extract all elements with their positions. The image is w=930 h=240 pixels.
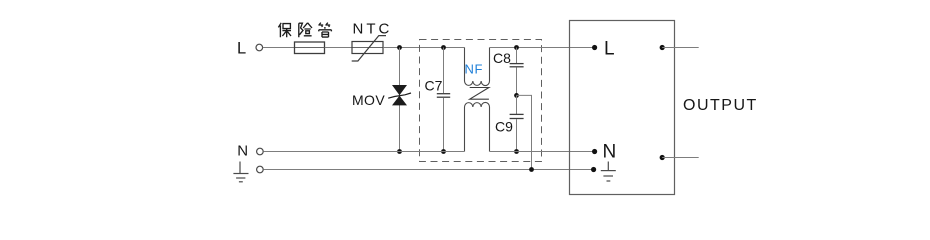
svg-text:L: L bbox=[237, 40, 246, 58]
node output + dot bbox=[660, 45, 665, 50]
label C8 bbox=[493, 50, 511, 66]
thermistor NTC bbox=[352, 36, 386, 61]
wire choke to output box (N rail) bbox=[490, 151, 595, 153]
label C7 bbox=[425, 77, 443, 93]
svg-text:N: N bbox=[237, 142, 248, 159]
svg-text:N: N bbox=[603, 142, 617, 163]
wire L terminal to fuse bbox=[263, 47, 295, 49]
node junction C8/C9 midpoint bbox=[514, 93, 519, 98]
wire MOV branch vertical bbox=[399, 48, 401, 152]
svg-text:C8: C8 bbox=[493, 50, 511, 66]
wire output bottom bbox=[662, 157, 699, 159]
label NF bbox=[465, 62, 484, 77]
node output - dot bbox=[660, 155, 665, 160]
svg-text:C9: C9 bbox=[495, 119, 513, 135]
label C9 bbox=[495, 119, 513, 135]
wire earth terminal to output box bbox=[263, 169, 593, 171]
ground (output earth symbol) bbox=[601, 162, 616, 182]
capacitor C8 bbox=[510, 48, 524, 96]
node junction MOV top bbox=[397, 45, 402, 50]
node junction C7 top bbox=[441, 45, 446, 50]
node N input label bbox=[237, 142, 248, 159]
node junction MOV bottom bbox=[397, 149, 402, 154]
varistor MOV bbox=[388, 85, 411, 105]
ground (input earth symbol) bbox=[233, 162, 248, 182]
svg-text:OUTPUT: OUTPUT bbox=[683, 97, 758, 114]
common-mode choke NF top winding bbox=[465, 48, 490, 86]
node junction C9 bottom bbox=[514, 149, 519, 154]
node L output terminal bbox=[592, 45, 597, 50]
label N output bbox=[603, 142, 617, 163]
node junction earth / Y-cap bbox=[529, 167, 534, 172]
fuse F1 (保险管) bbox=[295, 42, 325, 54]
label OUTPUT bbox=[683, 97, 758, 114]
svg-text:NF: NF bbox=[465, 62, 484, 77]
svg-text:NTC: NTC bbox=[353, 21, 393, 38]
wire fuse to NTC bbox=[325, 47, 353, 49]
label MOV bbox=[352, 92, 385, 108]
terminal earth bbox=[257, 166, 264, 173]
wire Y-cap midpoint to earth bbox=[517, 95, 532, 169]
wire choke to output box (L rail) bbox=[490, 47, 595, 49]
wire output top bbox=[662, 47, 699, 49]
svg-text:L: L bbox=[604, 39, 615, 60]
terminal N bbox=[257, 148, 264, 155]
label NTC bbox=[353, 21, 393, 38]
common-mode choke NF core bbox=[470, 88, 489, 100]
label 保险管 (fuse) drawn glyphs bbox=[278, 23, 331, 38]
node junction C7 bottom bbox=[441, 149, 446, 154]
svg-text:C7: C7 bbox=[425, 77, 443, 93]
node L input label bbox=[237, 40, 246, 58]
capacitor C9 bbox=[510, 95, 524, 151]
node junction C8 top bbox=[514, 45, 519, 50]
wire N terminal to choke (N rail) bbox=[263, 151, 464, 153]
capacitor C7 bbox=[437, 48, 450, 152]
node N output terminal bbox=[592, 149, 597, 154]
node earth output terminal bbox=[591, 167, 596, 172]
label L output bbox=[604, 39, 615, 60]
svg-text:MOV: MOV bbox=[352, 92, 385, 108]
EMI filter dashed box bbox=[420, 40, 542, 162]
output module box bbox=[570, 21, 675, 195]
terminal L bbox=[256, 44, 263, 51]
common-mode choke NF bottom winding bbox=[465, 102, 490, 151]
wire NTC to choke (L rail) bbox=[383, 47, 464, 49]
